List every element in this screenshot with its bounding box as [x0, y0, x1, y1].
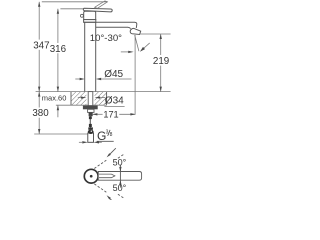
svg-text:219: 219 — [153, 56, 169, 67]
svg-text:50°: 50° — [113, 183, 127, 193]
svg-text:171: 171 — [103, 109, 118, 119]
svg-text:316: 316 — [50, 44, 67, 55]
svg-text:347: 347 — [33, 40, 49, 51]
svg-text:10°-30°: 10°-30° — [90, 33, 122, 44]
svg-text:50°: 50° — [113, 157, 127, 167]
svg-text:Ø45: Ø45 — [104, 69, 123, 80]
svg-text:max.60: max.60 — [42, 93, 67, 102]
svg-text:380: 380 — [32, 108, 49, 119]
svg-text:Ø34: Ø34 — [105, 95, 124, 106]
svg-text:8: 8 — [110, 132, 113, 138]
